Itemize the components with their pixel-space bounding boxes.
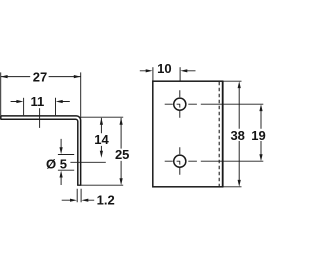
dim line 11 shafts [11, 101, 70, 103]
thin lines, right view [140, 67, 263, 187]
bracket left end cap [0, 116, 2, 119]
arrow 38 up [238, 81, 241, 88]
arrow 19 up [259, 104, 262, 111]
plate right edge (thicker) [222, 81, 224, 187]
svg-text:1.2: 1.2 [97, 192, 115, 207]
ext line 10 left [152, 67, 154, 81]
arrow 25 down [120, 178, 123, 185]
svg-text:14: 14 [94, 132, 109, 147]
top ext line to the right [81, 116, 124, 118]
arrow 1.2 left [70, 199, 77, 202]
dim line 25 [120, 118, 122, 179]
O5 ext line bottom [58, 169, 74, 171]
arrow 1.2 right [81, 199, 88, 202]
bottom ext line to the right [81, 184, 123, 186]
O5 arrow shafts [60, 139, 62, 185]
svg-text:10: 10 [157, 61, 171, 76]
hole top [174, 98, 186, 110]
ext lines 1.2 [77, 189, 81, 203]
dim line 38 [238, 88, 240, 181]
arrow 27 left [1, 75, 8, 78]
arrowheads, left view [1, 75, 123, 202]
arrow 11 right [56, 100, 63, 103]
hole bottom [174, 155, 186, 167]
dim line 14 [100, 118, 102, 151]
bracket leg bottom cap [77, 184, 81, 186]
ext line 27 right [80, 72, 82, 118]
svg-text:Ø 5: Ø 5 [46, 156, 67, 171]
bend dashed line [218, 82, 220, 186]
arrow 27 right [74, 75, 81, 78]
arrow O5 up [60, 171, 63, 178]
hole top centre cross horizontal + ext [165, 103, 264, 105]
svg-text:25: 25 [115, 147, 129, 162]
arrow 19 down [259, 154, 262, 161]
arrow O5 down [60, 147, 63, 154]
hole centre tick in top leg [39, 108, 41, 128]
bracket outer surface: top edge + bend + outer leg [1, 116, 81, 185]
bottom edge ext to right [223, 186, 242, 188]
arrow 38 down [238, 180, 241, 187]
hole bottom centre cross vertical [179, 147, 181, 175]
dim line 27 [1, 76, 81, 78]
arrow 14 up [100, 118, 103, 125]
thin dimension/extension lines, left view [1, 72, 124, 202]
hole top centre cross vertical [179, 90, 181, 118]
svg-text:11: 11 [31, 94, 45, 109]
plate outline [153, 81, 223, 187]
ext line 11 right [55, 98, 57, 115]
svg-text:19: 19 [251, 128, 265, 143]
arrow 25 up [120, 118, 123, 125]
top edge ext to right [223, 80, 242, 82]
dim line 19 [260, 111, 262, 155]
arrowheads, right view [146, 69, 263, 187]
arrow 10 right [180, 69, 187, 72]
hole bottom centre cross horizontal + ext [165, 160, 264, 162]
dim line 10 shafts [140, 70, 196, 72]
ext line 10 right (hole centre line up) [179, 67, 181, 81]
dim line 1.2 shafts [62, 199, 94, 201]
svg-text:27: 27 [33, 70, 47, 85]
arrow 11 left [16, 100, 23, 103]
bracket inner surface: bottom edge + inner bend + inner leg [1, 119, 78, 185]
arrow 14 down [100, 151, 103, 158]
ext line 27 left [0, 72, 2, 119]
O5 ext line top [58, 154, 74, 156]
arrow 10 left [146, 69, 153, 72]
ext line 11 left [23, 98, 25, 115]
svg-text:38: 38 [230, 128, 244, 143]
hole centre line through leg [70, 161, 105, 163]
